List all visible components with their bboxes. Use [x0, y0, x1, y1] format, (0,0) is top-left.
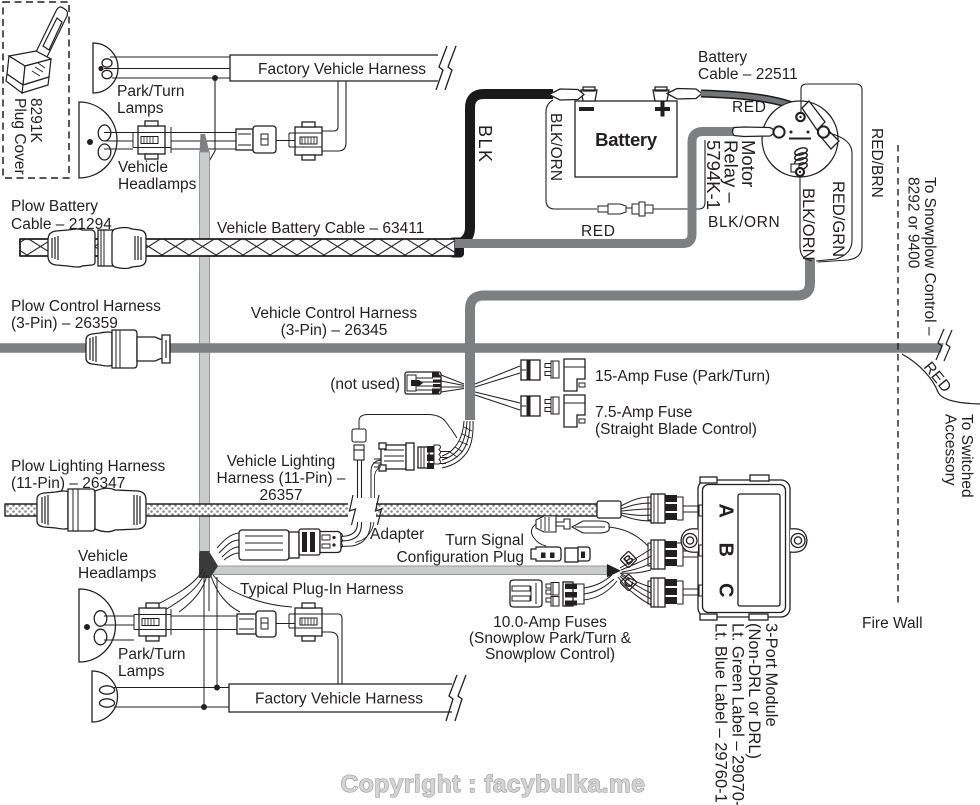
wire down from dot: [205, 78, 216, 169]
svg-text:(3-Pin) – 26345: (3-Pin) – 26345: [281, 322, 388, 339]
white box on stipple cable: [597, 501, 621, 518]
svg-text:Park/Turn: Park/Turn: [117, 83, 184, 100]
headlamp socket connector bottom: [134, 603, 171, 641]
plow battery connector: [48, 228, 146, 269]
headlamp socket bottom: [289, 603, 322, 641]
svg-text:(Snowplow Park/Turn &: (Snowplow Park/Turn &: [469, 630, 632, 647]
15-amp fuse assembly: [521, 359, 585, 391]
vehicle control harness: [0, 343, 946, 353]
battery: [575, 87, 677, 177]
svg-text:Factory Vehicle Harness: Factory Vehicle Harness: [255, 691, 423, 708]
svg-text:7.5-Amp Fuse: 7.5-Amp Fuse: [595, 404, 692, 421]
BLK/ORN thin wire from relay: [800, 176, 812, 261]
svg-text:Lamps: Lamps: [117, 100, 164, 117]
light gray vertical band: [200, 134, 210, 568]
svg-text:BLK/ORN: BLK/ORN: [547, 113, 564, 181]
svg-text:Vehicle Battery Cable – 63411: Vehicle Battery Cable – 63411: [217, 220, 424, 237]
svg-text:(not used): (not used): [330, 376, 400, 393]
plow lighting stippled cable: [5, 504, 597, 516]
junction dot: [212, 75, 218, 81]
wires socket to plug bottom: [171, 616, 295, 630]
motor relay gray wire: [455, 132, 734, 244]
wires socket to factory box bottom: [322, 614, 342, 684]
plug cover dashed box: [3, 2, 69, 178]
headlamp wires: [104, 133, 295, 150]
svg-text:Plow Control Harness: Plow Control Harness: [11, 298, 161, 315]
svg-text:10.0-Amp Fuses: 10.0-Amp Fuses: [493, 614, 607, 631]
single pin connector: [341, 429, 381, 547]
svg-text:Cable – 22511: Cable – 22511: [698, 66, 798, 83]
C diamond: [620, 574, 637, 591]
vehicle headlamp top: [79, 102, 117, 178]
turn signal plug connectors: [531, 547, 590, 562]
factory vehicle harness box bottom: [229, 675, 466, 721]
svg-text:RED: RED: [920, 359, 955, 397]
svg-text:Headlamps: Headlamps: [78, 565, 157, 582]
svg-text:(3-Pin) – 26359: (3-Pin) – 26359: [11, 315, 118, 332]
lamp wires to factory box bottom: [114, 688, 229, 708]
red wire to switched accessory: [902, 354, 980, 404]
wires arrow to C to port C: [618, 573, 651, 605]
svg-text:Copyright : facybulka.me: Copyright : facybulka.me: [341, 771, 646, 798]
factory vehicle harness box top: [230, 46, 456, 90]
svg-text:BLK/ORN: BLK/ORN: [708, 214, 780, 231]
svg-text:Headlamps: Headlamps: [118, 176, 197, 193]
adapter white connector: [217, 529, 343, 560]
svg-text:15-Amp Fuse (Park/Turn): 15-Amp Fuse (Park/Turn): [595, 368, 770, 385]
small plug connector with s-wire: [531, 516, 648, 546]
svg-text:RED/GRN: RED/GRN: [829, 181, 847, 257]
module stub wires: [683, 506, 699, 595]
svg-text:Snowplow Control): Snowplow Control): [485, 646, 615, 663]
svg-text:3-Port Module(Non-DRL or DRL)L: 3-Port Module(Non-DRL or DRL)Lt. Green L…: [712, 623, 780, 805]
park/turn lamp bottom: [92, 671, 118, 722]
fan blob at band corner: [199, 553, 218, 578]
wires lamp to factory box: [104, 57, 230, 78]
svg-text:Vehicle Control Harness: Vehicle Control Harness: [251, 305, 418, 322]
B diamond: [620, 551, 637, 568]
fan wires to lamps: [152, 569, 292, 707]
svg-text:Lamps: Lamps: [118, 663, 165, 680]
wires arrow to B to port B: [620, 549, 651, 573]
plug cover icon: [6, 7, 68, 93]
svg-text:Vehicle: Vehicle: [118, 159, 168, 176]
svg-text:Vehicle Lighting: Vehicle Lighting: [227, 453, 336, 470]
svg-text:RED: RED: [581, 223, 616, 240]
battery minus clamp: [549, 89, 584, 100]
svg-text:Turn Signal: Turn Signal: [445, 532, 524, 549]
single pin connector wire: [359, 415, 457, 439]
svg-text:Fire Wall: Fire Wall: [862, 615, 923, 632]
headlamp socket connector top right: [289, 122, 322, 160]
svg-text:A: A: [715, 504, 737, 518]
plug-in connector bottom: [237, 611, 276, 637]
fuse wires: [475, 366, 520, 410]
stipple cable gap and breaks: [348, 495, 382, 525]
headlamp bulb connector top: [236, 126, 276, 153]
7.5-amp fuse assembly: [521, 395, 585, 427]
svg-text:To Snowplow Control –8292 or 9: To Snowplow Control –8292 or 9400: [905, 177, 939, 336]
svg-text:B: B: [715, 543, 737, 557]
typical plug-in harness band: [211, 564, 621, 577]
svg-text:Park/Turn: Park/Turn: [118, 646, 185, 663]
port connectors: [648, 494, 683, 607]
svg-text:Configuration Plug: Configuration Plug: [396, 549, 524, 566]
RED/GRN thin wire: [816, 133, 852, 261]
relay junction gray wire: [470, 259, 810, 352]
svg-text:Vehicle: Vehicle: [78, 548, 128, 565]
wires socket to box: [322, 81, 346, 151]
inline connector pair: [598, 202, 653, 216]
10-amp fuse cluster: [510, 575, 617, 607]
park/turn lamp top: [93, 43, 118, 93]
battery cable 22511 (dark gray): [701, 94, 809, 114]
svg-text:8291KPlug Cover: 8291KPlug Cover: [11, 98, 44, 175]
svg-text:Factory Vehicle Harness: Factory Vehicle Harness: [258, 61, 426, 78]
svg-text:(Straight Blade Control): (Straight Blade Control): [595, 421, 757, 438]
vehicle battery cable hatched: [20, 239, 455, 256]
svg-text:Battery: Battery: [698, 49, 747, 66]
motor relay: [733, 101, 840, 177]
not used connector: [405, 372, 464, 395]
BLK thick wire: [449, 238, 464, 258]
wires from box to port A connector: [621, 497, 651, 521]
3-port module: [681, 475, 807, 620]
plow control connector: [86, 330, 170, 368]
vehicle headlamp bottom: [79, 589, 116, 662]
headlamp socket connector top: [133, 121, 171, 159]
svg-text:C: C: [715, 583, 737, 597]
RED/BRN thin wire: [801, 84, 862, 262]
battery minus thin wire: [546, 100, 597, 209]
svg-text:Adapter: Adapter: [370, 526, 424, 543]
lighting harness connector B: [418, 445, 450, 469]
twisted braid from gray wire: [442, 421, 473, 468]
svg-text:Harness (11-Pin) –: Harness (11-Pin) –: [217, 470, 346, 487]
svg-text:BLK/ORN: BLK/ORN: [799, 188, 817, 260]
lighting harness connector A: [373, 443, 414, 471]
svg-text:RED/BRN: RED/BRN: [868, 128, 885, 198]
svg-text:MotorRelay –5794K-1: MotorRelay –5794K-1: [703, 140, 759, 210]
svg-text:RED: RED: [732, 99, 767, 116]
svg-text:Typical Plug-In Harness: Typical Plug-In Harness: [240, 581, 404, 598]
battery plus clamp: [667, 89, 702, 100]
svg-text:Plow Lighting Harness: Plow Lighting Harness: [11, 458, 165, 475]
svg-text:BLK: BLK: [475, 125, 495, 164]
right side: dashed firewall line: [897, 145, 899, 607]
svg-text:To SwitchedAccessory: To SwitchedAccessory: [942, 414, 976, 498]
svg-text:26357: 26357: [259, 487, 302, 504]
svg-text:Battery: Battery: [595, 129, 658, 150]
headlamp wires bottom: [104, 616, 134, 640]
plow lighting connector: [37, 488, 146, 532]
svg-text:Plow Battery: Plow Battery: [11, 198, 98, 215]
